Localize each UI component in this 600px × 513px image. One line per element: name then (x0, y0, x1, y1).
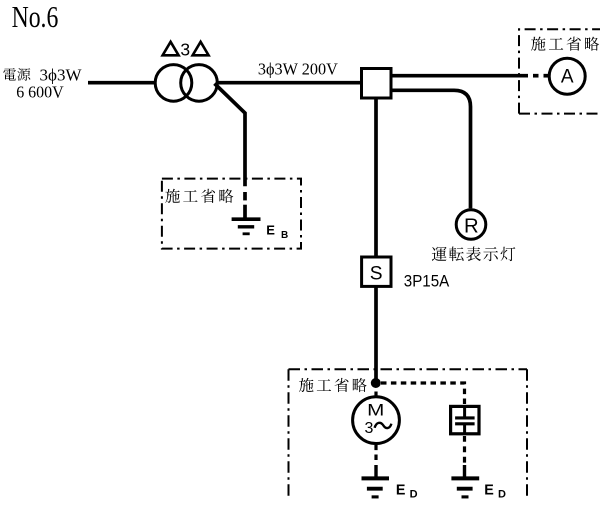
svg-text:3ϕ3W 200V: 3ϕ3W 200V (258, 59, 338, 78)
wire switch S to junction node (374, 288, 378, 383)
svg-text:D: D (410, 489, 418, 501)
svg-text:3P15A: 3P15A (404, 272, 450, 291)
svg-text:B: B (281, 230, 288, 241)
wire transformer to junction box (217, 81, 360, 85)
svg-text:6 600V: 6 600V (16, 82, 64, 102)
svg-text:E: E (396, 482, 406, 498)
wire dash segments to ammeter (533, 74, 539, 78)
ground ED1 (362, 478, 390, 497)
wire source feed (88, 81, 156, 85)
delta symbol left (163, 42, 179, 56)
wire dashed node to motor (374, 392, 377, 396)
label 運転表示灯 (432, 247, 515, 262)
label 電源 3φ3W 6600V (3, 65, 82, 101)
switch box S (362, 257, 391, 286)
ground EB (232, 219, 261, 234)
dashed box motor 施工省略 (289, 369, 528, 500)
motor tilde (375, 423, 392, 428)
dashed box A 施工省略 (519, 29, 600, 113)
wire dashed motor to ground ED1 (374, 445, 377, 464)
svg-text:D: D (498, 489, 506, 501)
running lamp R (456, 210, 486, 240)
wire junction box to switch S (374, 98, 378, 256)
svg-text:R: R (464, 216, 479, 238)
wire to EB ground stem (243, 205, 247, 219)
wire junction box to ammeter (392, 74, 528, 78)
label 施工省略 (A box) (531, 37, 599, 51)
wire transformer to EB ground (diagonal + vertical) (215, 84, 246, 187)
wire dashed node to capacitor branch (381, 383, 465, 405)
wire dashed capacitor to ground ED2 (463, 436, 466, 464)
transformer T primary circle (155, 65, 192, 102)
svg-text:3: 3 (180, 40, 190, 60)
ground ED2 (451, 478, 479, 497)
wire dash segment inside EB box (243, 192, 247, 200)
label ED2 (484, 482, 506, 500)
svg-text:No.6: No.6 (12, 0, 59, 34)
capacitor box (451, 406, 479, 433)
delta symbol right (193, 42, 209, 56)
dashed box EB 施工省略 (162, 179, 301, 249)
label 施工省略 (motor box) (299, 378, 367, 392)
svg-text:A: A (561, 66, 574, 87)
label ED1 (396, 482, 418, 500)
junction box (pull box) (362, 69, 392, 99)
svg-text:E: E (484, 482, 494, 498)
capacitor internals (455, 406, 475, 434)
label EB (266, 222, 288, 241)
svg-text:E: E (266, 222, 275, 237)
ammeter A (549, 58, 585, 94)
transformer T secondary circle (181, 65, 218, 102)
wire junction box to R lamp (curved branch) (392, 90, 471, 208)
motor M 3~ (353, 397, 400, 444)
svg-text:3: 3 (365, 420, 374, 437)
node junction dot (371, 378, 381, 388)
svg-text:S: S (370, 263, 383, 284)
label 施工省略 (EB box) (165, 189, 233, 203)
svg-text:M: M (367, 401, 384, 420)
